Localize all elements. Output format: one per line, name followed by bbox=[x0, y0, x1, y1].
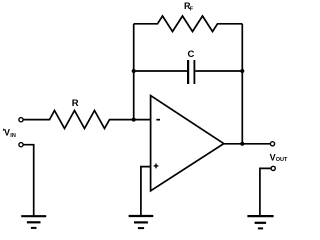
svg-text:IN: IN bbox=[10, 133, 16, 139]
svg-text:OUT: OUT bbox=[276, 157, 288, 163]
svg-text:C: C bbox=[188, 49, 195, 60]
svg-text:R: R bbox=[72, 98, 79, 109]
svg-text:F: F bbox=[190, 7, 194, 13]
svg-text:V: V bbox=[4, 128, 10, 138]
